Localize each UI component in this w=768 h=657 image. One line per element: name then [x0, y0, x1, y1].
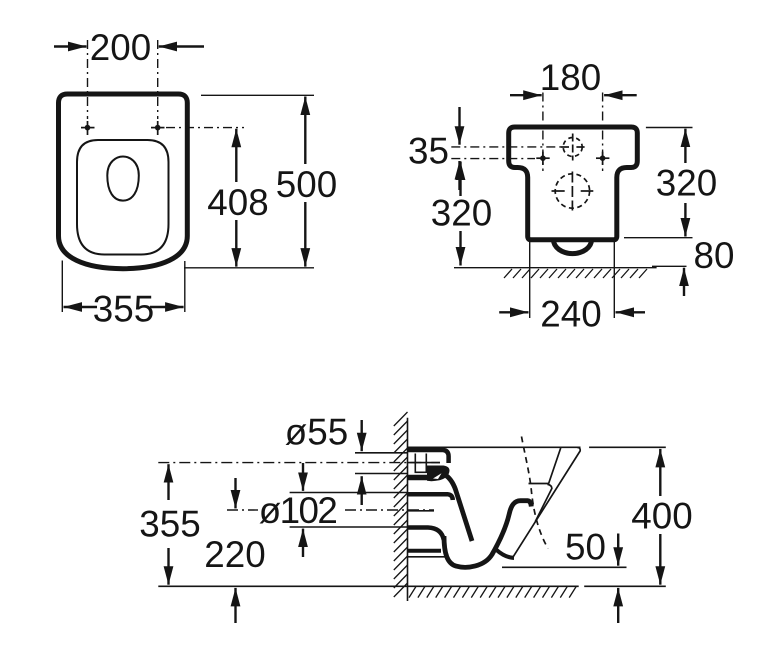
side: seat hinge horizontal line	[529, 483, 549, 485]
dim 355 (plan)	[62, 261, 185, 313]
rear outline	[509, 127, 638, 240]
side: pipe lower thick line	[408, 475, 429, 481]
rear dash-dot horizontal upper (35)	[451, 146, 561, 148]
rear outlet dashed circle	[555, 174, 589, 208]
side: inlet pipe top and right edge (thick)	[408, 450, 449, 463]
rear dash-dot vertical left	[542, 93, 544, 172]
side: outlet bottom bar curving into trap (thick)	[408, 528, 444, 541]
dim 320 left	[459, 162, 461, 266]
svg-text:240: 240	[540, 293, 601, 334]
rear outlet centre cross	[552, 172, 594, 211]
dim 408	[235, 129, 237, 267]
side: trap U curve (thick)	[444, 501, 531, 568]
plan centre dash-dot vertical right	[157, 40, 159, 119]
dim 400	[659, 449, 661, 585]
svg-text:408: 408	[207, 182, 268, 223]
svg-text:80: 80	[694, 235, 735, 276]
svg-text:355: 355	[139, 503, 200, 544]
dim 500	[184, 95, 314, 267]
plan centre dash-dot vertical left	[87, 40, 89, 119]
floor line	[158, 585, 578, 587]
side: top extension line (400)	[589, 446, 666, 448]
rear fixing hole cross left	[536, 152, 549, 165]
wall edge line	[407, 418, 409, 601]
svg-text:320: 320	[656, 162, 717, 203]
svg-text:ø55: ø55	[285, 412, 348, 453]
side: outlet axis thin line	[408, 510, 435, 512]
side: bowl bottom front (thick)	[496, 550, 514, 558]
side: inlet inner rect bottom (thin)	[415, 471, 428, 473]
side: bowl back diagonal (thick)	[445, 475, 473, 542]
side: lid dashed curve	[522, 437, 549, 549]
svg-text:35: 35	[408, 130, 449, 171]
plan outer outline	[59, 94, 188, 269]
rear inlet centre cross	[561, 134, 585, 161]
svg-text:500: 500	[276, 164, 337, 205]
dim 35	[458, 107, 460, 190]
plan fixing hole cross right	[151, 121, 165, 135]
svg-text:180: 180	[540, 57, 601, 98]
dim 180	[510, 94, 637, 96]
rear inlet dashed circle	[563, 138, 582, 157]
ground line (rear view)	[454, 267, 657, 269]
svg-text:200: 200	[90, 27, 151, 68]
dim 50	[502, 566, 627, 568]
side: front face thin diagonal	[512, 447, 580, 558]
side: dash-dot outlet axis (ø102)	[227, 509, 258, 511]
side: rim section solid corner	[427, 466, 449, 482]
rear dash-dot horizontal lower (35)	[451, 158, 535, 160]
dim 355 (side)	[167, 464, 169, 585]
ground hatching (rear view)	[504, 269, 647, 278]
side: ceramic top line	[408, 446, 581, 448]
plan hole axis dash-dot to the right	[166, 127, 244, 129]
side: dash-dot inlet axis (355 ref)	[158, 462, 440, 464]
svg-text:ø102: ø102	[259, 490, 337, 531]
side: inlet axis solid segment	[408, 462, 441, 464]
plan fixing hole cross left	[81, 121, 95, 135]
side: outlet top bar (thick)	[408, 494, 453, 500]
svg-text:320: 320	[431, 193, 492, 234]
side: ceramic bottom back line (thick)	[408, 549, 442, 553]
rear fixing hole cross right	[596, 152, 609, 165]
svg-text:355: 355	[93, 288, 154, 329]
wall hatching	[394, 412, 408, 597]
dim 240	[530, 241, 615, 318]
dim 220 (side)	[234, 478, 236, 623]
side: seat inner profile	[535, 448, 560, 522]
svg-text:220: 220	[204, 534, 265, 575]
dim 320 right	[624, 128, 693, 238]
dim 80	[652, 265, 687, 267]
rear dash-dot vertical right	[602, 93, 604, 172]
rear bottom outlet arc	[554, 240, 592, 254]
side: ceramic bottom back underline (thin)	[408, 556, 447, 558]
svg-text:50: 50	[565, 526, 606, 567]
plan bowl hole egg	[107, 157, 139, 201]
plan inner seat rim	[77, 140, 169, 255]
svg-text:400: 400	[631, 496, 692, 537]
side: inlet inner rect left vertical (thin)	[414, 454, 416, 473]
side: inlet inner rect right vertical (thin)	[425, 454, 427, 473]
dim 200	[54, 45, 204, 47]
floor hatching	[409, 587, 576, 598]
side: rim drain white notch	[433, 473, 442, 479]
